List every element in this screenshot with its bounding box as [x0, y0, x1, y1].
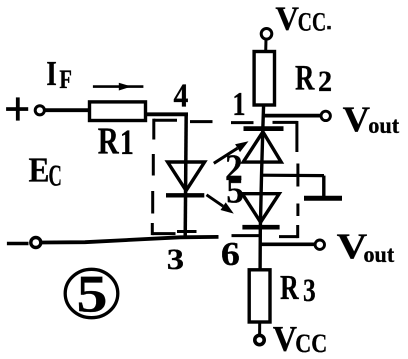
current direction arrow — [93, 83, 143, 91]
label R3 — [280, 268, 316, 309]
lower photodiode cathode bar (pin 6) — [242, 225, 279, 230]
svg-text:V: V — [275, 0, 299, 37]
svg-text:6: 6 — [221, 236, 240, 273]
svg-text:CC: CC — [295, 329, 327, 358]
resistor R2 — [254, 52, 274, 106]
LED vertical wire (pin4 to pin3) — [185, 113, 186, 239]
light arrow to upper photodiode — [214, 141, 249, 163]
label IF — [46, 54, 72, 94]
Vout top wire — [263, 114, 321, 118]
svg-text:2: 2 — [318, 66, 332, 98]
VCC top terminal — [261, 29, 272, 40]
label VCC top — [275, 0, 330, 37]
svg-text:3: 3 — [167, 243, 184, 276]
svg-text:5: 5 — [226, 171, 244, 211]
upper photodiode triangle — [243, 132, 281, 162]
wire terminal to R1 — [45, 108, 90, 112]
dashed package box: right edge — [297, 121, 298, 238]
svg-text:5: 5 — [77, 266, 108, 324]
LED cathode bar — [166, 193, 204, 197]
svg-text:1: 1 — [120, 122, 134, 162]
light arrow to lower photodiode — [207, 195, 234, 214]
lower photodiode triangle — [242, 194, 279, 223]
svg-text:out: out — [364, 242, 395, 267]
label Vout bottom — [337, 226, 395, 267]
figure number circled 5 — [65, 266, 118, 324]
svg-text:E: E — [29, 151, 50, 190]
bottom-left stub wire — [7, 242, 29, 246]
input terminal bottom — [31, 238, 41, 248]
svg-text:R: R — [280, 268, 299, 307]
middle terminal bar — [304, 196, 342, 201]
middle tap vertical — [322, 176, 325, 198]
Vout bottom terminal — [315, 240, 324, 249]
label VCC bottom — [273, 319, 328, 359]
svg-text:F: F — [59, 65, 72, 94]
VCC bottom terminal — [255, 335, 264, 344]
svg-text:R: R — [98, 120, 120, 162]
dashed package box: bottom edge — [152, 232, 297, 237]
main right vertical wire — [260, 105, 264, 270]
svg-text:V: V — [273, 319, 297, 359]
upper photodiode cathode bar (pin 1) — [244, 126, 284, 131]
resistor R3 — [249, 270, 270, 322]
input terminal top — [35, 106, 44, 115]
svg-text:CC: CC — [298, 8, 326, 37]
label Vout top — [343, 99, 400, 139]
wire R3 to VCC bottom — [258, 322, 261, 335]
svg-text:out: out — [368, 113, 399, 138]
svg-text:3: 3 — [303, 273, 316, 309]
Vout top terminal — [321, 111, 330, 120]
bottom-left wire to pin 3 — [41, 237, 218, 243]
Vout bottom wire — [260, 243, 315, 247]
wire R1 to pin 4 — [146, 112, 189, 116]
dashed package box: top edge — [154, 120, 298, 122]
label R2 — [295, 58, 332, 98]
LED triangle — [168, 162, 205, 191]
svg-text:4: 4 — [174, 78, 189, 115]
resistor R1 — [90, 102, 146, 121]
svg-text:1: 1 — [232, 86, 245, 123]
svg-text:C: C — [49, 158, 62, 192]
wire VCC to R2 — [264, 39, 267, 52]
middle tap wire — [262, 174, 324, 178]
label EC — [29, 151, 62, 193]
svg-text:V: V — [343, 99, 371, 139]
dashed package box: left edge — [152, 119, 154, 235]
svg-text:R: R — [295, 58, 315, 98]
plus sign — [6, 97, 28, 120]
svg-text:I: I — [46, 54, 57, 93]
label R1 — [98, 120, 134, 162]
